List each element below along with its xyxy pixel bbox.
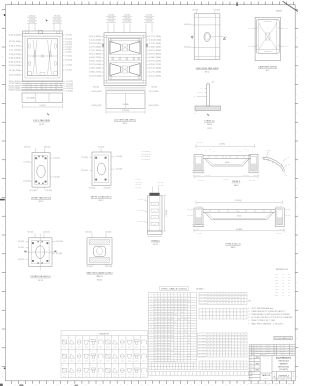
svg-text:SC 12: SC 12 bbox=[38, 280, 43, 282]
section2 inner floor bbox=[212, 219, 267, 221]
view E slot bbox=[37, 165, 45, 177]
svg-text:0.64 (.025): 0.64 (.025) bbox=[65, 47, 72, 49]
svg-text:8.9 (.350): 8.9 (.350) bbox=[66, 49, 72, 51]
svg-text:2.54: 2.54 bbox=[154, 217, 157, 219]
svg-text:12.70 (.500): 12.70 (.500) bbox=[9, 88, 21, 90]
svg-text:7.62 (.300): 7.62 (.300) bbox=[27, 231, 34, 233]
svg-text:12.70 (.500): 12.70 (.500) bbox=[89, 64, 102, 66]
svg-text:15.9 (D62): 15.9 (D62) bbox=[39, 105, 46, 107]
svg-text:W/H O TREY IS 7 ONL: W/H O TREY IS 7 ONL bbox=[252, 320, 276, 322]
svg-text:7.62 (.300): 7.62 (.300) bbox=[213, 9, 220, 11]
view F slot bbox=[97, 163, 105, 175]
svg-text:NMBR: NMBR bbox=[200, 297, 209, 299]
svg-text:1.27 (.050): 1.27 (.050) bbox=[192, 9, 199, 11]
view A bottom dimension line bbox=[22, 106, 62, 108]
fold mark left edge upper bbox=[4, 14, 6, 16]
svg-text:12.70 (.500): 12.70 (.500) bbox=[30, 190, 38, 192]
title block header strip bbox=[249, 354, 295, 356]
svg-text:7.62 (.300): 7.62 (.300) bbox=[285, 215, 291, 217]
svg-text:2.54: 2.54 bbox=[27, 84, 30, 86]
svg-text:0.64: 0.64 bbox=[55, 86, 58, 88]
svg-text:2.54 (0.100): 2.54 (0.100) bbox=[65, 39, 73, 41]
svg-text:10.2 (.400): 10.2 (.400) bbox=[53, 157, 60, 159]
svg-text:2.54 (0.100): 2.54 (0.100) bbox=[66, 83, 74, 85]
svg-text:1.27 (.050): 1.27 (.050) bbox=[137, 220, 144, 222]
view F outer rect bbox=[92, 152, 111, 186]
svg-text:P/N 45: P/N 45 bbox=[121, 360, 125, 362]
svg-text:(H.215): (H.215) bbox=[237, 216, 242, 218]
svg-text:0.38 (.015): 0.38 (.015) bbox=[44, 146, 51, 148]
svg-text:8.9 (.350): 8.9 (.350) bbox=[196, 232, 202, 234]
svg-text:(GL) TCRD ELYCO: (GL) TCRD ELYCO bbox=[276, 357, 292, 359]
title block revision rows bbox=[249, 345, 295, 347]
svg-text:0.38 (.015): 0.38 (.015) bbox=[92, 105, 103, 107]
svg-text:1.27: 1.27 bbox=[41, 88, 44, 90]
svg-text:10.4.95: 10.4.95 bbox=[280, 347, 286, 349]
svg-text:12.70 (.500): 12.70 (.500) bbox=[253, 174, 260, 176]
svg-text:1.27 (.050): 1.27 (.050) bbox=[65, 55, 72, 57]
svg-text:3.18 (.125): 3.18 (.125) bbox=[24, 146, 31, 148]
svg-text:15.9 (.625): 15.9 (.625) bbox=[9, 75, 22, 77]
view B lower contact bowtie bbox=[110, 63, 141, 77]
spec table header label bbox=[160, 287, 189, 291]
svg-text:4/90: 4/90 bbox=[288, 274, 291, 276]
view A pointer bbox=[47, 113, 50, 116]
section2 right foot bbox=[275, 208, 284, 227]
svg-text:3.18 (.125): 3.18 (.125) bbox=[85, 231, 92, 233]
svg-text:4/92: 4/92 bbox=[288, 280, 291, 282]
svg-text:3.18 (.125): 3.18 (.125) bbox=[9, 46, 22, 48]
svg-text:12.70 (.500): 12.70 (.500) bbox=[89, 76, 102, 78]
svg-text:1.27: 1.27 bbox=[41, 82, 44, 84]
svg-text:2.54 (0.100): 2.54 (0.100) bbox=[149, 40, 162, 42]
svg-text:12.70 (.500): 12.70 (.500) bbox=[9, 41, 21, 43]
svg-text:10.2 (.400): 10.2 (.400) bbox=[196, 142, 203, 144]
view C body bbox=[194, 14, 220, 60]
scan edge dashes bottom bbox=[0, 384, 3, 386]
svg-text:0.64 (.025): 0.64 (.025) bbox=[92, 91, 103, 93]
view A base block bbox=[22, 93, 63, 102]
view A bottom inserts bbox=[28, 72, 32, 76]
view E inner rect bbox=[35, 155, 48, 184]
svg-text:14 (UDS): 14 (UDS) bbox=[219, 144, 225, 146]
border zone tick marks top bbox=[10, 2, 12, 5]
svg-text:SC 12: SC 12 bbox=[123, 123, 128, 125]
title block logo bbox=[260, 372, 272, 374]
svg-text:8.9 (.350): 8.9 (.350) bbox=[18, 247, 24, 249]
section2 side walls bbox=[205, 212, 212, 220]
svg-text:0.38 (.015): 0.38 (.015) bbox=[89, 72, 102, 74]
svg-text:P/N 45: P/N 45 bbox=[63, 345, 67, 347]
svg-text:209309-1: 209309-1 bbox=[278, 375, 290, 377]
svg-text:SC 12: SC 12 bbox=[39, 124, 44, 126]
svg-text:1.27 (.050): 1.27 (.050) bbox=[65, 65, 72, 67]
svg-text:1.14 (.045): 1.14 (.045) bbox=[149, 91, 160, 93]
svg-text:5.08 (.200): 5.08 (.200) bbox=[9, 58, 22, 60]
svg-text:D: D bbox=[296, 75, 297, 77]
svg-text:P/N 45: P/N 45 bbox=[106, 374, 110, 376]
view B corner ovals bbox=[110, 39, 112, 43]
svg-text:10.2 (.400): 10.2 (.400) bbox=[223, 179, 229, 181]
svg-text:P/N 45: P/N 45 bbox=[63, 360, 67, 362]
svg-text:5.08 (.200): 5.08 (.200) bbox=[9, 90, 21, 92]
view F inner rect bbox=[95, 155, 109, 183]
svg-text:JW: JW bbox=[292, 347, 293, 349]
svg-text:R.5: R.5 bbox=[288, 163, 290, 165]
svg-text:12.70 (.500): 12.70 (.500) bbox=[276, 205, 283, 207]
svg-text:8.9 (.350): 8.9 (.350) bbox=[194, 229, 200, 231]
svg-text:15.9 (.625): 15.9 (.625) bbox=[149, 61, 162, 63]
view B outer body bbox=[104, 33, 146, 86]
view A latch ovals bbox=[29, 44, 31, 49]
svg-text:NMBR: NMBR bbox=[198, 349, 207, 351]
svg-text:10.2 (.400): 10.2 (.400) bbox=[205, 174, 211, 176]
svg-text:12.70 (.500): 12.70 (.500) bbox=[89, 43, 102, 45]
svg-text:12.70 (.500): 12.70 (.500) bbox=[9, 70, 21, 72]
svg-text:12.70 (.500): 12.70 (.500) bbox=[243, 174, 250, 176]
svg-text:NMBR: NMBR bbox=[200, 300, 209, 302]
section2 left foot bbox=[194, 208, 203, 227]
svg-text:DESCR: DESCR bbox=[266, 345, 271, 347]
svg-text:1.27 (.050): 1.27 (.050) bbox=[149, 72, 162, 74]
svg-text:15.9 (.625): 15.9 (.625) bbox=[9, 81, 21, 83]
svg-text:1.14 (.045): 1.14 (.045) bbox=[116, 156, 123, 158]
border zone tick marks right bbox=[295, 8, 298, 10]
view C datum arrows bbox=[191, 36, 193, 38]
svg-text:10.2 (.400): 10.2 (.400) bbox=[56, 253, 63, 255]
title block left fields bbox=[259, 355, 261, 380]
svg-text:DESCR: DESCR bbox=[266, 347, 271, 349]
svg-text:P/N 45: P/N 45 bbox=[135, 374, 139, 376]
svg-text:4/97: 4/97 bbox=[288, 295, 291, 297]
view A cavity bbox=[28, 39, 58, 76]
svg-text:15.9 (.625): 15.9 (.625) bbox=[89, 188, 96, 190]
view B upper contact bowtie bbox=[110, 41, 141, 55]
view G inner rect bbox=[31, 241, 49, 264]
svg-text:3.18 (.125): 3.18 (.125) bbox=[137, 210, 144, 212]
svg-text:NMBR: NMBR bbox=[200, 294, 209, 296]
spec table frame bbox=[148, 293, 196, 363]
ladder body bbox=[148, 196, 163, 231]
svg-text:5.0: 5.0 bbox=[225, 36, 227, 38]
svg-text:NMBR: NMBR bbox=[198, 352, 207, 354]
svg-text:1.27 (.050): 1.27 (.050) bbox=[86, 266, 93, 268]
svg-text:10.2 (.400): 10.2 (.400) bbox=[149, 68, 162, 70]
ladder right dimension line bbox=[164, 196, 166, 231]
svg-text:2.54 (0.100): 2.54 (0.100) bbox=[65, 60, 73, 62]
svg-text:12.70 (.500): 12.70 (.500) bbox=[9, 83, 21, 85]
svg-text:T.5: T.5 bbox=[201, 88, 203, 90]
svg-text:D: D bbox=[296, 375, 297, 377]
svg-text:REV 1204: REV 1204 bbox=[256, 347, 264, 349]
svg-text:3.18 (.125): 3.18 (.125) bbox=[157, 185, 164, 187]
svg-text:O.5: O.5 bbox=[193, 112, 195, 114]
svg-text:1.27 (.050): 1.27 (.050) bbox=[23, 162, 30, 164]
svg-text:G: G bbox=[296, 281, 297, 283]
view G outer rect bbox=[29, 238, 53, 267]
svg-text:D: D bbox=[296, 225, 297, 227]
svg-text:1.27 (.050): 1.27 (.050) bbox=[9, 50, 22, 52]
svg-text:4/96: 4/96 bbox=[288, 292, 291, 294]
svg-text:H: H bbox=[296, 150, 297, 152]
view B bottom dimension line bbox=[106, 111, 145, 113]
svg-text:0.64 (.025): 0.64 (.025) bbox=[66, 86, 73, 88]
svg-text:P/N 45: P/N 45 bbox=[142, 360, 146, 362]
svg-text:10.2 (.400): 10.2 (.400) bbox=[116, 169, 123, 171]
svg-text:2.54: 2.54 bbox=[27, 82, 30, 84]
svg-text:0.38 (.015): 0.38 (.015) bbox=[249, 180, 255, 182]
svg-text:P.103: P.103 bbox=[275, 283, 278, 285]
svg-text:3.18 (.125): 3.18 (.125) bbox=[93, 87, 100, 89]
svg-text:DESCRIPTION: DESCRIPTION bbox=[260, 354, 266, 356]
svg-text:C: C bbox=[2, 56, 3, 58]
svg-text:1.27: 1.27 bbox=[41, 86, 44, 88]
section1 top dimension line bbox=[196, 145, 255, 147]
svg-text:(H.168): (H.168) bbox=[225, 162, 230, 164]
svg-text:2.54 (0.100): 2.54 (0.100) bbox=[104, 188, 112, 190]
fold mark left edge lower bbox=[4, 368, 6, 369]
svg-text:P/N 45: P/N 45 bbox=[70, 360, 74, 362]
svg-text:C: C bbox=[296, 357, 297, 359]
svg-text:C: C bbox=[2, 357, 3, 359]
svg-text:JW: JW bbox=[292, 351, 293, 353]
crease line top-right corner bbox=[283, 1, 298, 11]
view G datum arrows bbox=[25, 250, 27, 252]
svg-text:NMBR: NMBR bbox=[198, 355, 207, 357]
svg-text:15.9 (.625): 15.9 (.625) bbox=[18, 241, 25, 243]
svg-text:P.104: P.104 bbox=[275, 286, 278, 288]
svg-text:3.18 (.125): 3.18 (.125) bbox=[149, 64, 162, 66]
title block center cell bbox=[271, 355, 273, 380]
svg-text:10.4.95: 10.4.95 bbox=[280, 351, 286, 353]
svg-text:2.54 (0.100): 2.54 (0.100) bbox=[9, 54, 21, 56]
svg-text:0.38 (.015): 0.38 (.015) bbox=[187, 215, 193, 217]
svg-text:0.38 (.015): 0.38 (.015) bbox=[137, 199, 144, 201]
svg-text:P/N 45: P/N 45 bbox=[121, 374, 125, 376]
svg-text:7.62 (.300): 7.62 (.300) bbox=[198, 180, 204, 182]
section1 side walls bbox=[205, 158, 212, 166]
svg-text:2.54: 2.54 bbox=[154, 210, 157, 212]
section1 right foot bbox=[249, 155, 258, 173]
svg-text:12.70 (.500): 12.70 (.500) bbox=[122, 110, 130, 112]
svg-text:SC 12: SC 12 bbox=[39, 201, 44, 203]
svg-text:P/N 45: P/N 45 bbox=[77, 360, 81, 362]
svg-text:P/N 45: P/N 45 bbox=[92, 360, 96, 362]
svg-text:P(TWR): P(TWR) bbox=[198, 92, 203, 94]
svg-text:DESCR: DESCR bbox=[266, 349, 271, 351]
status box bbox=[274, 336, 292, 339]
svg-text:SH 12: SH 12 bbox=[207, 124, 212, 126]
svg-text:15.9 (.625): 15.9 (.625) bbox=[98, 146, 105, 148]
view H outer rect bbox=[87, 238, 112, 264]
svg-text:2.54 (0.100): 2.54 (0.100) bbox=[66, 88, 74, 90]
section1 left foot bbox=[194, 155, 203, 173]
svg-text:R.2: R.2 bbox=[288, 157, 290, 159]
svg-text:P.101: P.101 bbox=[275, 277, 278, 279]
svg-text:10.4.95: 10.4.95 bbox=[280, 345, 286, 347]
svg-text:XX +-.25: XX +-.25 bbox=[263, 358, 270, 360]
svg-text:G: G bbox=[2, 281, 3, 283]
svg-text:0.64: 0.64 bbox=[55, 82, 58, 84]
svg-text:3.18 (.125): 3.18 (.125) bbox=[89, 61, 102, 63]
svg-text:1.27 (.050): 1.27 (.050) bbox=[149, 43, 162, 45]
svg-text:REV 1204: REV 1204 bbox=[256, 351, 264, 353]
svg-text:C: C bbox=[2, 206, 3, 208]
svg-text:G: G bbox=[2, 131, 3, 133]
view A top notch bbox=[39, 31, 43, 34]
svg-text:P.106: P.106 bbox=[275, 292, 278, 294]
svg-text:G: G bbox=[296, 131, 297, 133]
svg-text:5.08 (.200): 5.08 (.200) bbox=[45, 190, 52, 192]
order key chart header bbox=[61, 334, 148, 336]
svg-text:H: H bbox=[2, 150, 3, 152]
svg-text:0.64 (.025): 0.64 (.025) bbox=[89, 57, 102, 59]
svg-text:5.08 (.200): 5.08 (.200) bbox=[66, 91, 73, 93]
svg-text:10.4.95: 10.4.95 bbox=[280, 349, 286, 351]
svg-text:D: D bbox=[2, 75, 3, 77]
svg-text:P/N 45: P/N 45 bbox=[106, 360, 110, 362]
T-section bottom mark bbox=[207, 114, 210, 117]
svg-text:P/N 45: P/N 45 bbox=[142, 345, 146, 347]
svg-text:8.9 (.350): 8.9 (.350) bbox=[66, 52, 72, 54]
svg-text:NMBR: NMBR bbox=[200, 303, 209, 305]
svg-text:5.08 (.200): 5.08 (.200) bbox=[149, 57, 162, 59]
view A stack band bbox=[22, 80, 64, 82]
svg-text:REV 1204: REV 1204 bbox=[256, 349, 264, 351]
svg-text:12.70 (.500): 12.70 (.500) bbox=[166, 209, 168, 217]
view A cavity mid rail bbox=[28, 55, 58, 57]
svg-text:1.27 (.050): 1.27 (.050) bbox=[279, 229, 285, 231]
svg-text:NMBR: NMBR bbox=[198, 337, 207, 339]
svg-text:3.18 (.125): 3.18 (.125) bbox=[81, 170, 88, 172]
svg-text:P/N 45: P/N 45 bbox=[128, 374, 132, 376]
svg-text:P/N 45: P/N 45 bbox=[77, 374, 81, 376]
view D blank outline bbox=[256, 20, 279, 54]
svg-text:4/95: 4/95 bbox=[288, 289, 291, 291]
svg-text:12.70 (.500): 12.70 (.500) bbox=[135, 182, 142, 184]
dim table T3 bbox=[198, 333, 247, 357]
svg-text:SH.13: SH.13 bbox=[234, 185, 239, 187]
svg-text:7.62 (.300): 7.62 (.300) bbox=[151, 87, 158, 89]
ladder top clamp bar bbox=[149, 193, 159, 196]
svg-text:MIN TO RECESSED: MIN TO RECESSED bbox=[141, 154, 150, 156]
svg-text:P/N 45: P/N 45 bbox=[135, 345, 139, 347]
section2 top dimension line bbox=[196, 201, 282, 203]
svg-text:P/N 45: P/N 45 bbox=[121, 345, 125, 347]
border zone tick marks left bbox=[2, 8, 6, 10]
svg-text:5.08 (.200): 5.08 (.200) bbox=[89, 68, 102, 70]
view D outer rect bbox=[255, 17, 280, 60]
svg-text:P/N 45: P/N 45 bbox=[113, 374, 117, 376]
zone strip rows under spec table bbox=[148, 363, 196, 369]
svg-text:0.64 (.025): 0.64 (.025) bbox=[9, 85, 21, 87]
svg-text:8.9 (.350): 8.9 (.350) bbox=[196, 205, 202, 207]
svg-text:P.107: P.107 bbox=[275, 295, 278, 297]
cursor arrow glyph bbox=[46, 19, 49, 22]
svg-text:0.38 (.015): 0.38 (.015) bbox=[285, 209, 291, 211]
svg-text:5.08 (.200): 5.08 (.200) bbox=[135, 184, 142, 186]
svg-text:0.64: 0.64 bbox=[55, 88, 58, 90]
svg-text:8.9 (.350): 8.9 (.350) bbox=[89, 54, 102, 56]
svg-text:SC 112: SC 112 bbox=[97, 279, 102, 281]
svg-text:10.2 (.400): 10.2 (.400) bbox=[149, 76, 162, 78]
svg-text:1.27 (.050): 1.27 (.050) bbox=[194, 174, 200, 176]
fold mark left edge middle bbox=[0, 199, 5, 201]
svg-text:1.27 (.050): 1.27 (.050) bbox=[65, 41, 72, 43]
view A corner tabs bbox=[26, 31, 29, 34]
svg-text:P.102: P.102 bbox=[275, 280, 278, 282]
svg-text:O1: O1 bbox=[194, 96, 196, 98]
svg-text:2.54: 2.54 bbox=[154, 204, 157, 206]
zone strip wide row bbox=[148, 372, 252, 375]
fold mark top edge bbox=[236, 3, 237, 6]
svg-text:1.27 (.050): 1.27 (.050) bbox=[89, 47, 102, 49]
svg-text:D15.9 (DIM): D15.9 (DIM) bbox=[26, 97, 35, 99]
svg-text:SC.12: SC.12 bbox=[153, 244, 158, 246]
svg-text:0.64 (.025): 0.64 (.025) bbox=[149, 105, 160, 107]
svg-text:P/N 45: P/N 45 bbox=[85, 360, 89, 362]
svg-text:1.14 (.045): 1.14 (.045) bbox=[81, 157, 88, 159]
svg-text:P/N 45: P/N 45 bbox=[113, 360, 117, 362]
view A contact diagonals bbox=[33, 40, 37, 75]
view D pierce hourglass bbox=[259, 23, 266, 33]
svg-text:NMBR: NMBR bbox=[198, 346, 207, 348]
svg-text:P/N 45: P/N 45 bbox=[92, 374, 96, 376]
section2 top web bbox=[203, 209, 275, 211]
svg-text:H: H bbox=[296, 300, 297, 302]
section1 flange detail view bbox=[263, 157, 285, 171]
svg-text:P/N 45: P/N 45 bbox=[63, 374, 67, 376]
svg-text:7.62 (.300): 7.62 (.300) bbox=[53, 176, 60, 178]
view E corner pads bbox=[35, 157, 37, 159]
svg-text:SC 12: SC 12 bbox=[99, 200, 104, 202]
section1 inner floor bbox=[212, 165, 243, 167]
svg-text:MIN TO RECESSED: MIN TO RECESSED bbox=[141, 156, 150, 158]
svg-text:P/N 45: P/N 45 bbox=[85, 345, 89, 347]
view D corner leaders bbox=[252, 28, 259, 29]
svg-text:17.6 (NCS): 17.6 (NCS) bbox=[235, 200, 242, 202]
svg-text:1.27: 1.27 bbox=[41, 84, 44, 86]
svg-text:5.08 (.200): 5.08 (.200) bbox=[184, 24, 191, 26]
svg-text:P.105: P.105 bbox=[275, 289, 278, 291]
svg-text:SC 3: SC 3 bbox=[266, 70, 270, 72]
svg-text:1.27 (.050): 1.27 (.050) bbox=[65, 70, 72, 72]
dim table T2 bbox=[199, 308, 247, 319]
svg-text:IMPROVED (OMD): IMPROVED (OMD) bbox=[278, 366, 289, 368]
svg-text:P/N 45: P/N 45 bbox=[77, 345, 81, 347]
spec table header row bbox=[148, 297, 196, 299]
svg-text:1.27 (.050): 1.27 (.050) bbox=[149, 36, 162, 38]
svg-text:10.2 (.400): 10.2 (.400) bbox=[184, 47, 191, 49]
svg-text:C: C bbox=[296, 206, 297, 208]
svg-text:P/N 45: P/N 45 bbox=[92, 345, 96, 347]
svg-text:ORDER KEY: ORDER KEY bbox=[99, 333, 110, 335]
title block number band bbox=[272, 371, 295, 373]
view B inner body bbox=[106, 35, 144, 83]
svg-text:SC 12: SC 12 bbox=[207, 128, 211, 130]
svg-text:12.70 (.500): 12.70 (.500) bbox=[23, 181, 31, 183]
section1 bottom dimension line bbox=[194, 176, 258, 178]
svg-text:REV 1204: REV 1204 bbox=[256, 345, 264, 347]
svg-text:P/N 45: P/N 45 bbox=[99, 374, 103, 376]
view G pads bbox=[32, 242, 34, 244]
svg-text:15.9 (.625): 15.9 (.625) bbox=[65, 35, 72, 37]
svg-text:0.64 (.025): 0.64 (.025) bbox=[9, 62, 22, 64]
svg-text:NMBR: NMBR bbox=[198, 334, 207, 336]
svg-text:2.54: 2.54 bbox=[27, 88, 30, 90]
svg-text:C: C bbox=[296, 56, 297, 58]
svg-text:12.70 (.500): 12.70 (.500) bbox=[105, 266, 113, 268]
